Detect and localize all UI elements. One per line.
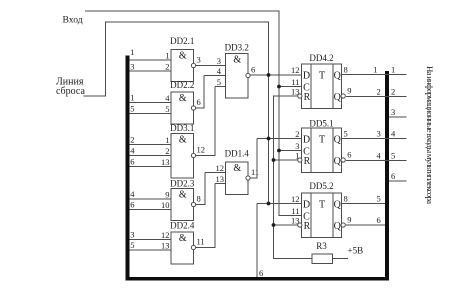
wire net 6 from bottom bus to DD5.2 pin 12 (D): [257, 204, 302, 278]
output pin 11 of DD2.4: [197, 237, 205, 247]
wire net 6: DD5.2 inverse Q into bus: [346, 215, 385, 225]
svg-text:5: 5: [344, 128, 348, 138]
svg-text:9: 9: [347, 85, 351, 95]
node Вход (input label): [63, 14, 83, 25]
svg-text:сброса: сброса: [56, 86, 85, 97]
svg-text:2: 2: [130, 135, 134, 145]
svg-text:Q: Q: [334, 221, 342, 232]
wire C input of DD5.1 (pin 3): [279, 150, 302, 152]
svg-text:&: &: [179, 190, 187, 201]
svg-text:4: 4: [130, 146, 135, 156]
pin 13 of DD5.2: [291, 215, 300, 225]
pin 12 of DD1.4: [216, 163, 225, 173]
output pin 9 of DD4.2 (inverse Q): [347, 85, 351, 95]
svg-text:6: 6: [130, 200, 134, 210]
svg-text:R: R: [304, 92, 311, 103]
wire DD2.4 out 11 to DD1.4 pin 13: [196, 184, 226, 248]
wire net 3 output stub right of bus: [389, 107, 407, 117]
pin 11 of DD5.2: [291, 206, 299, 216]
logic gate DD1.4 (AND-NOT): [226, 162, 251, 195]
label DD2.2: [170, 80, 194, 90]
output pin 6 of DD2.2: [197, 97, 201, 107]
svg-text:Q: Q: [334, 134, 342, 145]
svg-text:11: 11: [291, 77, 299, 87]
wire DD1.4 out 11 to DD5.1 pin 2 (D): [250, 139, 302, 179]
svg-text:1: 1: [165, 135, 169, 145]
svg-text:DD5.1: DD5.1: [309, 118, 333, 128]
svg-text:&: &: [179, 135, 187, 146]
svg-text:6: 6: [197, 97, 201, 107]
wire bus tap net 6 at y=166.5: [130, 157, 172, 167]
pin 13 of DD2.4: [161, 240, 170, 250]
pin 2 of DD3.1: [165, 146, 169, 156]
wire Вход line: to C inputs, ends at DD5.2 pin 11: [85, 11, 302, 216]
flip-flop DD5.1 (T-trigger): [298, 128, 346, 173]
svg-text:8: 8: [344, 64, 348, 74]
svg-text:DD5.2: DD5.2: [309, 181, 333, 191]
svg-text:DD3.2: DD3.2: [225, 43, 249, 53]
wire R input of DD5.1 (pin 1): [274, 159, 298, 161]
pin 1 of DD5.1: [295, 150, 299, 160]
svg-text:13: 13: [161, 240, 170, 250]
svg-text:D: D: [303, 199, 310, 210]
wire C input of DD4.2 (pin 11): [279, 86, 302, 88]
wire net 5: DD5.2 Q into bus: [342, 194, 386, 204]
pin 4 of DD2.2: [165, 93, 170, 103]
svg-text:T: T: [319, 70, 325, 81]
svg-text:DD2.1: DD2.1: [170, 36, 194, 46]
svg-text:1: 1: [130, 47, 134, 57]
output pin 6 of DD5.1 (inverse Q): [347, 149, 351, 159]
svg-text:R3: R3: [316, 241, 327, 251]
pin 13 of DD1.4: [216, 174, 225, 184]
wire bus tap net 4 at y=155.5: [130, 146, 172, 156]
output pin 8 of DD2.3: [197, 194, 201, 204]
svg-text:1: 1: [295, 150, 299, 160]
svg-text:4: 4: [165, 93, 170, 103]
svg-text:2: 2: [295, 129, 299, 139]
pin 12 of DD2.4: [161, 230, 170, 240]
label DD1.4: [225, 149, 250, 159]
wire bus tap net 2 at y=144.5: [130, 135, 172, 145]
svg-text:T: T: [319, 134, 325, 145]
svg-text:2: 2: [391, 87, 395, 97]
pin 9 of DD2.3: [165, 189, 169, 199]
wire bus tap net 4 at y=199: [130, 189, 172, 199]
svg-text:2: 2: [165, 146, 169, 156]
svg-text:R: R: [304, 156, 311, 167]
svg-text:1: 1: [373, 65, 377, 75]
svg-text:12: 12: [291, 65, 300, 75]
svg-text:5: 5: [217, 77, 221, 87]
svg-text:3: 3: [377, 129, 381, 139]
svg-text:На информационные входы мульти: На информационные входы мультиплексора: [425, 66, 435, 204]
svg-text:5: 5: [130, 104, 134, 114]
left bus bar: [126, 56, 130, 281]
wire bus tap net 6 at y=209.5: [130, 200, 172, 210]
svg-text:&: &: [233, 163, 241, 174]
svg-text:8: 8: [344, 193, 348, 203]
svg-text:3: 3: [197, 55, 201, 65]
pin 2 of DD2.1: [165, 61, 169, 71]
wire net 6 output stub right of bus: [389, 171, 407, 181]
pin 1 of DD3.1: [165, 135, 169, 145]
svg-text:DD3.1: DD3.1: [170, 123, 194, 133]
svg-text:11: 11: [197, 237, 205, 247]
svg-text:4: 4: [217, 66, 222, 76]
output pin 5 of DD5.1 (Q): [344, 128, 348, 138]
label DD5.2: [309, 181, 333, 191]
logic gate DD2.1 (AND-NOT): [171, 50, 196, 82]
label DD2.3: [170, 179, 195, 189]
wire bus tap net 1 at y=60: [130, 47, 172, 60]
wire R input of DD5.2 (pin 13): [274, 224, 298, 226]
pin 2 of DD5.1: [295, 129, 299, 139]
svg-text:+5В: +5В: [348, 246, 364, 256]
label R3: [316, 241, 327, 251]
svg-text:12: 12: [216, 163, 225, 173]
wire DD2.1 out 3 to DD3.2 pin 3: [196, 65, 226, 67]
svg-text:12: 12: [291, 194, 300, 204]
svg-text:Вход: Вход: [63, 14, 83, 25]
label DD5.1: [309, 118, 333, 128]
svg-text:T: T: [319, 199, 325, 210]
svg-text:Q: Q: [334, 70, 342, 81]
svg-text:Q: Q: [334, 156, 342, 167]
svg-text:12: 12: [161, 230, 170, 240]
svg-text:13: 13: [161, 157, 170, 167]
svg-text:13: 13: [291, 215, 300, 225]
svg-text:2: 2: [165, 61, 169, 71]
wire net 2: DD4.2 inverse Q to multiplexer: [346, 87, 407, 97]
svg-text:1: 1: [391, 65, 395, 75]
pin 5 of DD3.2: [217, 77, 221, 87]
output pin 8 of DD5.2 (Q): [344, 193, 348, 203]
svg-text:Q: Q: [334, 199, 342, 210]
svg-text:5: 5: [165, 104, 169, 114]
svg-text:12: 12: [197, 145, 206, 155]
svg-text:6: 6: [347, 149, 351, 159]
svg-text:3: 3: [391, 107, 395, 117]
logic gate DD2.4 (AND-NOT): [171, 232, 196, 264]
junction on DD4.2 D line (reset rail): [267, 73, 271, 77]
flip-flop DD5.2 (T-trigger): [298, 193, 346, 238]
output pin 9 of DD5.2 (inverse Q): [347, 214, 351, 224]
svg-text:4: 4: [377, 151, 382, 161]
label DD3.1: [170, 123, 194, 133]
label net 6 at bottom: [259, 268, 263, 278]
pin 3 of DD3.2: [217, 56, 221, 66]
pin 13 of DD4.2: [291, 86, 300, 96]
wire net 4: DD5.1 inverse Q into bus: [346, 151, 407, 161]
wire bus tap net 3 at y=239.5: [130, 230, 172, 240]
wire net 1: DD4.2 Q to multiplexer: [342, 65, 407, 75]
svg-text:DD2.4: DD2.4: [170, 220, 195, 230]
svg-text:6: 6: [251, 65, 255, 75]
svg-text:&: &: [179, 51, 187, 62]
label На информационные входы мультиплексора: [425, 66, 435, 204]
svg-text:4: 4: [391, 129, 396, 139]
svg-text:3: 3: [130, 61, 134, 71]
junction R rail to DD5.1 R: [272, 158, 276, 162]
svg-text:3: 3: [217, 56, 221, 66]
output pin 12 of DD3.1: [197, 145, 206, 155]
svg-text:13: 13: [291, 86, 300, 96]
svg-text:1: 1: [130, 93, 134, 103]
logic gate DD3.2 (AND-NOT): [226, 54, 251, 99]
node Линия сброса (reset line label): [56, 77, 85, 98]
power +5B label: [348, 246, 364, 256]
svg-text:2: 2: [377, 87, 381, 97]
wire DD2.2 out 6 to DD3.2 pin 4: [196, 76, 226, 109]
svg-text:9: 9: [347, 214, 351, 224]
label DD3.2: [225, 43, 249, 53]
junction on DD5.2 D line (reset rail end): [267, 202, 271, 206]
label DD4.2: [309, 53, 333, 63]
pin 10 of DD2.3: [161, 200, 170, 210]
svg-text:&: &: [179, 233, 187, 244]
svg-text:DD1.4: DD1.4: [225, 149, 250, 159]
svg-text:11: 11: [291, 206, 299, 216]
wire bus tap net 5 at y=250: [130, 240, 172, 250]
logic gate DD2.3 (AND-NOT): [171, 189, 196, 221]
flip-flop DD4.2 (T-trigger): [298, 64, 346, 109]
pin 13 of DD3.1: [161, 157, 170, 167]
svg-text:11: 11: [251, 167, 259, 177]
svg-text:D: D: [303, 134, 310, 145]
svg-text:Q: Q: [334, 92, 342, 103]
wire reset line: up and over, down to D-input rail, ends at DD5.2 pin 12 line: [84, 22, 269, 204]
label DD2.1: [170, 36, 194, 46]
pin 3 of DD5.1: [295, 141, 299, 151]
junction clock to DD5.1 C: [277, 149, 281, 153]
svg-text:DD2.3: DD2.3: [170, 179, 195, 189]
svg-text:4: 4: [130, 189, 135, 199]
svg-text:DD2.2: DD2.2: [170, 80, 194, 90]
svg-text:DD4.2: DD4.2: [309, 53, 333, 63]
output pin 11 of DD1.4: [251, 167, 259, 177]
svg-text:R: R: [304, 221, 311, 232]
svg-text:5: 5: [391, 151, 395, 161]
junction clock to DD4.2 C: [277, 85, 281, 89]
svg-text:6: 6: [259, 268, 263, 278]
wire DD3.1 out 12 to DD3.2 pin 5: [196, 87, 226, 156]
label DD2.4: [170, 220, 195, 230]
right bus bar: [385, 71, 389, 281]
junction R rail to DD5.2 R: [272, 223, 276, 227]
svg-text:&: &: [179, 93, 187, 104]
wire bus tap net 1 at y=102.5: [130, 93, 172, 103]
svg-text:13: 13: [216, 174, 225, 184]
output pin 3 of DD2.1: [197, 55, 201, 65]
wire DD3.2 out 6 to DD4.2 pin 12 (D): [250, 74, 302, 76]
wire net 3: DD5.1 Q into bus: [342, 129, 407, 139]
svg-text:1: 1: [165, 50, 169, 60]
svg-text:6: 6: [130, 157, 134, 167]
pin 11 of DD4.2: [291, 77, 299, 87]
svg-text:6: 6: [377, 215, 381, 225]
output pin 8 of DD4.2 (Q): [344, 64, 348, 74]
wire R rail: DD4.2 pin 13 down to R3: [274, 96, 313, 259]
svg-text:5: 5: [377, 194, 381, 204]
output pin 6 of DD3.2: [251, 65, 255, 75]
svg-text:5: 5: [130, 240, 134, 250]
bottom bus bar: [126, 277, 390, 281]
junction on DD5.1 D line (reset rail): [267, 137, 271, 141]
pin 12 of DD4.2: [291, 65, 300, 75]
pin 4 of DD3.2: [217, 66, 222, 76]
wire DD2.3 out 8 to DD1.4 pin 12: [196, 173, 226, 205]
resistor R3: [312, 254, 332, 264]
wire R3 to +5V: [332, 258, 348, 260]
pin 5 of DD2.2: [165, 104, 169, 114]
svg-text:10: 10: [161, 200, 170, 210]
logic gate DD2.2 (AND-NOT): [171, 92, 196, 124]
pin 1 of DD2.1: [165, 50, 169, 60]
svg-text:6: 6: [391, 171, 395, 181]
wire bus tap net 5 at y=113.5: [130, 104, 172, 114]
svg-text:D: D: [303, 70, 310, 81]
svg-text:3: 3: [295, 141, 299, 151]
logic gate DD3.1 (AND-NOT): [171, 134, 196, 179]
pin 12 of DD5.2: [291, 194, 300, 204]
wire bus tap net 3 at y=71: [130, 61, 172, 71]
svg-text:9: 9: [165, 189, 169, 199]
svg-text:&: &: [233, 55, 241, 66]
svg-text:8: 8: [197, 194, 201, 204]
svg-text:3: 3: [130, 230, 134, 240]
